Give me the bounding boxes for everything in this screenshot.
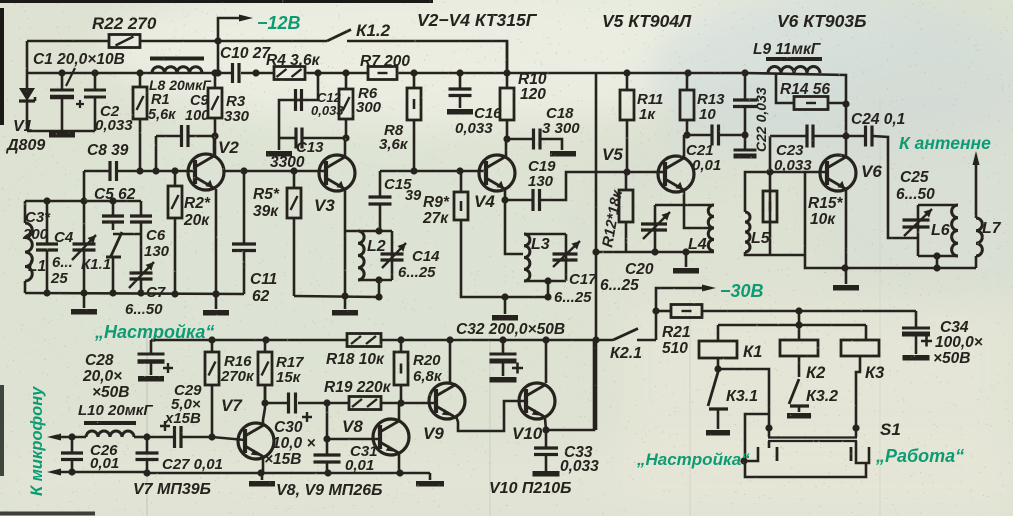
capacitor C9 bbox=[156, 125, 219, 171]
relay coil K3 bbox=[841, 340, 879, 356]
wire V9 collector bbox=[449, 340, 452, 384]
resistor R12 bbox=[619, 172, 633, 252]
wire supply link vertical bbox=[592, 73, 599, 430]
svg-text:300: 300 bbox=[356, 99, 382, 116]
svg-text:5,6к: 5,6к bbox=[148, 107, 176, 123]
switch K1.2 bbox=[327, 30, 351, 42]
inductor L9 bbox=[766, 59, 822, 73]
ground under C1 bbox=[49, 132, 75, 138]
capacitor C10 bbox=[233, 63, 240, 83]
wire V2 emitter bbox=[212, 189, 219, 298]
svg-text:К2: К2 bbox=[806, 364, 825, 382]
svg-text:R5*: R5* bbox=[253, 186, 280, 203]
resistor R18 bbox=[347, 334, 381, 347]
ground AF rail end bbox=[416, 473, 444, 484]
capacitor C15 bbox=[369, 171, 392, 231]
svg-text:130: 130 bbox=[528, 173, 554, 190]
svg-text:V1: V1 bbox=[13, 118, 33, 135]
svg-text:Д809: Д809 bbox=[5, 137, 45, 154]
svg-text:C22 0,033: C22 0,033 bbox=[753, 87, 769, 152]
svg-text:„Работа“: „Работа“ bbox=[875, 446, 964, 466]
wire V5 base bbox=[651, 171, 665, 174]
svg-text:C9: C9 bbox=[190, 93, 209, 109]
svg-text:120: 120 bbox=[520, 86, 546, 103]
svg-text:27к: 27к bbox=[422, 210, 449, 227]
svg-text:C4: C4 bbox=[54, 229, 74, 246]
wire relay feed rail bbox=[718, 311, 866, 341]
svg-text:L3: L3 bbox=[531, 236, 550, 253]
svg-text:C8 39: C8 39 bbox=[87, 142, 129, 159]
inductor L1 bbox=[25, 201, 32, 293]
svg-text:V10: V10 bbox=[512, 424, 543, 443]
svg-text:К3.1: К3.1 bbox=[726, 388, 758, 405]
capacitor C11 bbox=[232, 171, 256, 294]
svg-text:L8 20мкГ: L8 20мкГ bbox=[149, 77, 212, 93]
svg-text:100: 100 bbox=[185, 108, 209, 124]
svg-text:15к: 15к bbox=[276, 369, 302, 386]
svg-text:К3.2: К3.2 bbox=[806, 388, 838, 405]
wire R21 output rail bbox=[702, 307, 916, 314]
svg-text:V6: V6 bbox=[861, 162, 882, 181]
svg-text:6...: 6... bbox=[52, 254, 73, 271]
wire V9 emitter to V10 base bbox=[456, 401, 526, 431]
ground under V3 bbox=[332, 296, 358, 313]
wire V4 emitter bbox=[501, 190, 523, 254]
capacitor C6 bbox=[130, 201, 152, 234]
svg-text:R9*: R9* bbox=[423, 194, 450, 211]
resistor R6 bbox=[339, 73, 353, 138]
wire C23 column bbox=[766, 136, 773, 255]
svg-text:L4: L4 bbox=[688, 236, 707, 253]
svg-text:R15*: R15* bbox=[808, 195, 843, 212]
resistor R16 bbox=[205, 340, 219, 437]
wire V4 collector bbox=[505, 139, 508, 158]
resistor R7 bbox=[368, 67, 397, 80]
resistor R20 bbox=[394, 340, 408, 403]
ground under V6 bbox=[833, 268, 859, 288]
capacitor C28 bbox=[138, 340, 174, 379]
resistor R1 bbox=[133, 73, 147, 171]
resistor R3 bbox=[208, 73, 222, 156]
svg-text:C25: C25 bbox=[900, 169, 929, 186]
resistor R9 bbox=[454, 171, 548, 297]
svg-text:V5: V5 bbox=[602, 145, 623, 164]
svg-text:V8: V8 bbox=[342, 417, 363, 436]
svg-text:200: 200 bbox=[22, 226, 49, 243]
svg-text:R14 56: R14 56 bbox=[780, 81, 830, 98]
wire tank bottom bbox=[25, 289, 244, 297]
wire V6 emitter bbox=[841, 190, 848, 272]
wire L4 bottom rail bbox=[596, 251, 714, 254]
svg-text:25: 25 bbox=[50, 270, 68, 287]
capacitor C34 bbox=[902, 311, 932, 358]
transistor V8 bbox=[373, 419, 409, 455]
wire AF supply rail C32 bbox=[151, 336, 656, 343]
svg-text:0,01: 0,01 bbox=[692, 157, 721, 174]
wire V2 base bbox=[117, 167, 195, 174]
resistor R10 bbox=[500, 41, 514, 143]
wire K1 to S1 bbox=[718, 369, 773, 465]
capacitor C33 bbox=[533, 430, 560, 474]
capacitor C26 bbox=[61, 437, 83, 472]
ground under V7 bbox=[249, 473, 275, 484]
svg-text:C1 20,0×10В: C1 20,0×10В bbox=[33, 51, 125, 68]
svg-text:R20: R20 bbox=[413, 352, 441, 369]
capacitor C23 bbox=[770, 125, 850, 148]
wire V5 emitter bbox=[684, 190, 714, 228]
wire V7 emitter bbox=[262, 456, 265, 473]
inductor L6 tank bbox=[918, 205, 958, 268]
svg-text:V4: V4 bbox=[474, 192, 495, 211]
capacitor C12 bbox=[279, 73, 318, 138]
capacitor C2 bbox=[84, 73, 106, 131]
svg-text:V2−V4 КТ315Г: V2−V4 КТ315Г bbox=[417, 10, 538, 30]
svg-text:20к: 20к bbox=[183, 212, 210, 229]
capacitor C16 bbox=[447, 73, 473, 112]
svg-text:0,033: 0,033 bbox=[455, 120, 493, 137]
svg-text:10: 10 bbox=[699, 106, 716, 123]
capacitor C18 bbox=[507, 129, 576, 154]
svg-text:×50В: ×50В bbox=[92, 384, 130, 401]
inductor L3 tank bbox=[524, 234, 566, 297]
capacitor C21 bbox=[687, 125, 749, 146]
svg-text:C30: C30 bbox=[274, 419, 303, 436]
svg-text:C17: C17 bbox=[569, 271, 597, 288]
svg-text:3 300: 3 300 bbox=[542, 120, 580, 137]
svg-text:10к: 10к bbox=[810, 211, 836, 228]
svg-text:К1: К1 bbox=[743, 343, 762, 361]
capacitor C31 bbox=[314, 455, 341, 473]
svg-text:L5: L5 bbox=[751, 230, 771, 247]
ground under V2 emitter bbox=[203, 294, 229, 313]
wire V8 collector bbox=[398, 403, 401, 421]
wire V4 base bbox=[380, 167, 486, 174]
capacitor C20 (trimmer) bbox=[641, 212, 670, 239]
svg-text:130: 130 bbox=[144, 243, 170, 260]
capacitor C19 bbox=[505, 168, 651, 211]
wire V6 base bbox=[770, 172, 827, 267]
svg-text:−30В: −30В bbox=[720, 281, 764, 301]
svg-text:К1.1: К1.1 bbox=[81, 256, 111, 273]
svg-text:100,0×: 100,0× bbox=[935, 334, 983, 351]
wire V10 collector bbox=[545, 340, 548, 383]
capacitor C17 (trimmer) bbox=[553, 241, 581, 267]
transistor V4 bbox=[479, 155, 515, 191]
svg-text:L6: L6 bbox=[931, 222, 950, 239]
svg-text:C32 200,0×50В: C32 200,0×50В bbox=[456, 321, 565, 338]
inductor L8 bbox=[150, 59, 204, 74]
resistor R11 bbox=[620, 73, 634, 172]
switch K3.2 bbox=[787, 356, 811, 416]
svg-text:R18 10к: R18 10к bbox=[326, 351, 385, 368]
wire main rail bbox=[27, 69, 846, 104]
wire C30 row bbox=[265, 399, 436, 406]
wire mic line lower bbox=[47, 468, 76, 475]
wire bottom rail V3 stage bbox=[294, 293, 383, 300]
capacitor C25 (trimmer) bbox=[903, 209, 933, 236]
wire mic line upper bbox=[47, 433, 86, 440]
resistor R14 bbox=[776, 73, 850, 110]
transistor V3 bbox=[319, 155, 355, 191]
svg-text:0,01: 0,01 bbox=[345, 457, 374, 474]
transistor V5 bbox=[658, 156, 694, 192]
wire V10 emitter bbox=[542, 339, 594, 434]
ground under C13 bbox=[266, 138, 292, 154]
svg-text:3300: 3300 bbox=[270, 154, 305, 171]
resistor R13 bbox=[680, 73, 694, 135]
svg-text:6...50: 6...50 bbox=[896, 186, 935, 203]
resistor R22 bbox=[109, 35, 140, 48]
svg-text:0,033: 0,033 bbox=[95, 117, 133, 134]
svg-text:×50В: ×50В bbox=[933, 350, 971, 367]
svg-text:39: 39 bbox=[405, 188, 421, 204]
svg-text:V5 КТ904Л: V5 КТ904Л bbox=[602, 11, 692, 31]
capacitor C7 (trimmer) bbox=[129, 234, 154, 293]
svg-text:C3*: C3* bbox=[25, 209, 51, 226]
inductor L10 bbox=[84, 423, 151, 441]
capacitor C13 bbox=[279, 128, 350, 149]
svg-text:510: 510 bbox=[662, 340, 688, 357]
svg-text:C14: C14 bbox=[412, 248, 440, 265]
wire V2 to V3 base bbox=[224, 167, 326, 174]
svg-text:270к: 270к bbox=[220, 368, 255, 385]
relay coil K2 bbox=[780, 340, 818, 356]
ground under L4 bbox=[673, 252, 699, 271]
antenna arrow bbox=[973, 151, 980, 165]
transistor V7 bbox=[238, 423, 274, 459]
svg-text:C24 0,1: C24 0,1 bbox=[851, 111, 905, 128]
wire V8 emitter bbox=[398, 453, 401, 473]
svg-text:×15В: ×15В bbox=[264, 451, 302, 468]
svg-text:6...50: 6...50 bbox=[125, 301, 163, 318]
capacitor C29 bbox=[147, 421, 216, 448]
svg-text:62: 62 bbox=[252, 288, 270, 305]
svg-text:−12В: −12В bbox=[257, 13, 301, 33]
ground under tank bbox=[71, 293, 97, 312]
svg-text:C11: C11 bbox=[250, 271, 277, 288]
wire V7 base bbox=[212, 437, 245, 440]
switch K1.1 with C5 bbox=[102, 201, 141, 293]
wire V3 emitter bbox=[341, 190, 348, 300]
svg-text:C10 27: C10 27 bbox=[220, 45, 271, 62]
wire K2.1 to -30V bbox=[652, 288, 702, 340]
wire output gnd rail bbox=[805, 264, 976, 271]
wire V7 collector bbox=[263, 385, 265, 426]
switch K2.1 bbox=[613, 329, 638, 341]
inductor L5 bbox=[745, 172, 805, 255]
svg-text:L1: L1 bbox=[28, 258, 46, 275]
svg-text:1к: 1к bbox=[639, 106, 656, 123]
resistor R17 bbox=[258, 340, 272, 407]
svg-text:V2: V2 bbox=[218, 138, 239, 157]
wire V1-C1-C2 ground bus bbox=[27, 130, 95, 133]
svg-text:0,01: 0,01 bbox=[90, 455, 119, 472]
svg-text:6,8к: 6,8к bbox=[413, 368, 443, 385]
inductor L4 tank bbox=[651, 205, 714, 256]
svg-text:C6: C6 bbox=[146, 227, 166, 244]
svg-text:V6 КТ903Б: V6 КТ903Б bbox=[777, 11, 867, 31]
wire tank top bbox=[25, 197, 141, 204]
svg-text:C27 0,01: C27 0,01 bbox=[162, 456, 223, 473]
wire V6 collector bbox=[845, 104, 848, 158]
resistor R8 bbox=[407, 73, 421, 171]
scan edge marks bbox=[0, 0, 433, 3]
capacitor C32 bbox=[490, 340, 524, 380]
svg-text:6...25: 6...25 bbox=[398, 264, 436, 281]
svg-text:„Настройка“: „Настройка“ bbox=[636, 450, 750, 469]
svg-text:C20: C20 bbox=[625, 261, 654, 278]
capacitor C27 bbox=[136, 437, 159, 477]
resistor R5 bbox=[287, 171, 301, 296]
capacitor C3 bbox=[36, 201, 58, 293]
resistor R2 bbox=[168, 171, 182, 294]
wire AF bottom rail bbox=[61, 469, 430, 476]
svg-text:V9: V9 bbox=[423, 424, 444, 443]
resistor R15 bbox=[763, 191, 777, 222]
svg-text:R19 220к: R19 220к bbox=[324, 379, 392, 396]
svg-text:R1: R1 bbox=[151, 92, 170, 108]
svg-text:6...25: 6...25 bbox=[600, 277, 639, 294]
transistor V9 bbox=[429, 383, 465, 419]
relay coil K1 bbox=[699, 341, 737, 358]
svg-text:V8, V9 МП26Б: V8, V9 МП26Б bbox=[276, 482, 382, 499]
svg-text:V10 П210Б: V10 П210Б bbox=[489, 480, 571, 497]
svg-text:10,0 ×: 10,0 × bbox=[272, 435, 316, 452]
wire V8 base feed bbox=[323, 403, 380, 455]
svg-text:L9 11мкГ: L9 11мкГ bbox=[753, 41, 822, 58]
svg-text:R22 270: R22 270 bbox=[92, 14, 157, 33]
svg-text:0,033: 0,033 bbox=[560, 458, 599, 475]
resistor R21 bbox=[656, 305, 702, 318]
svg-text:К1.2: К1.2 bbox=[356, 21, 391, 40]
power arrow -30V bbox=[702, 285, 716, 292]
inductor L2 tank bbox=[345, 227, 392, 297]
capacitor C1 bbox=[50, 68, 84, 131]
resistor R4 bbox=[274, 67, 305, 80]
resistor R19 bbox=[349, 397, 381, 410]
inductor L7 bbox=[976, 164, 982, 268]
capacitor C22 bbox=[733, 73, 757, 156]
svg-text:V7 МП39Б: V7 МП39Б bbox=[133, 481, 211, 498]
capacitor C30 bbox=[289, 393, 313, 423]
capacitor C24 bbox=[846, 126, 918, 239]
capacitor C8 bbox=[84, 161, 117, 201]
svg-text:R7 200: R7 200 bbox=[360, 53, 410, 70]
wire top-rail to main-rail link bbox=[217, 41, 220, 73]
wire L3 gnd rail bbox=[492, 293, 552, 317]
svg-text:S1: S1 bbox=[880, 420, 901, 439]
diode V1 (zener D809) bbox=[19, 41, 35, 131]
svg-text:20,0×: 20,0× bbox=[82, 368, 122, 385]
svg-text:К3: К3 bbox=[865, 364, 884, 382]
switch K3.1 bbox=[706, 358, 730, 433]
svg-text:К антенне: К антенне bbox=[899, 133, 991, 153]
wire V3 collector bbox=[344, 138, 347, 158]
svg-text:К2.1: К2.1 bbox=[610, 345, 642, 362]
svg-text:6...25: 6...25 bbox=[554, 289, 592, 306]
svg-text:C5 62: C5 62 bbox=[94, 186, 136, 203]
transistor V2 bbox=[188, 154, 224, 190]
svg-text:V7: V7 bbox=[221, 396, 243, 415]
svg-text:330: 330 bbox=[224, 108, 250, 125]
svg-text:К микрофону: К микрофону bbox=[28, 386, 46, 496]
svg-text:C7: C7 bbox=[146, 284, 166, 301]
svg-text:L10 20мкГ: L10 20мкГ bbox=[78, 402, 153, 419]
wire top rail -12V bbox=[27, 37, 507, 73]
capacitor C4 (trimmer) bbox=[72, 201, 96, 293]
power arrow -12V bbox=[218, 15, 253, 42]
transistor V10 bbox=[519, 383, 555, 419]
capacitor C14 (trimmer) bbox=[381, 243, 407, 268]
wire V5 collector bbox=[683, 131, 690, 158]
svg-text:х15В: х15В bbox=[164, 410, 201, 427]
svg-text:V3: V3 bbox=[314, 196, 335, 215]
svg-text:C28: C28 bbox=[85, 352, 114, 369]
wire K3 to S1 bbox=[852, 356, 860, 432]
wire V2 collector bbox=[213, 136, 216, 157]
svg-text:R4 3,6к: R4 3,6к bbox=[266, 52, 321, 69]
svg-text:L7: L7 bbox=[982, 220, 1002, 237]
switch S1 bbox=[745, 428, 869, 477]
svg-text:R2*: R2* bbox=[184, 195, 211, 212]
transistor V6 bbox=[820, 155, 856, 191]
